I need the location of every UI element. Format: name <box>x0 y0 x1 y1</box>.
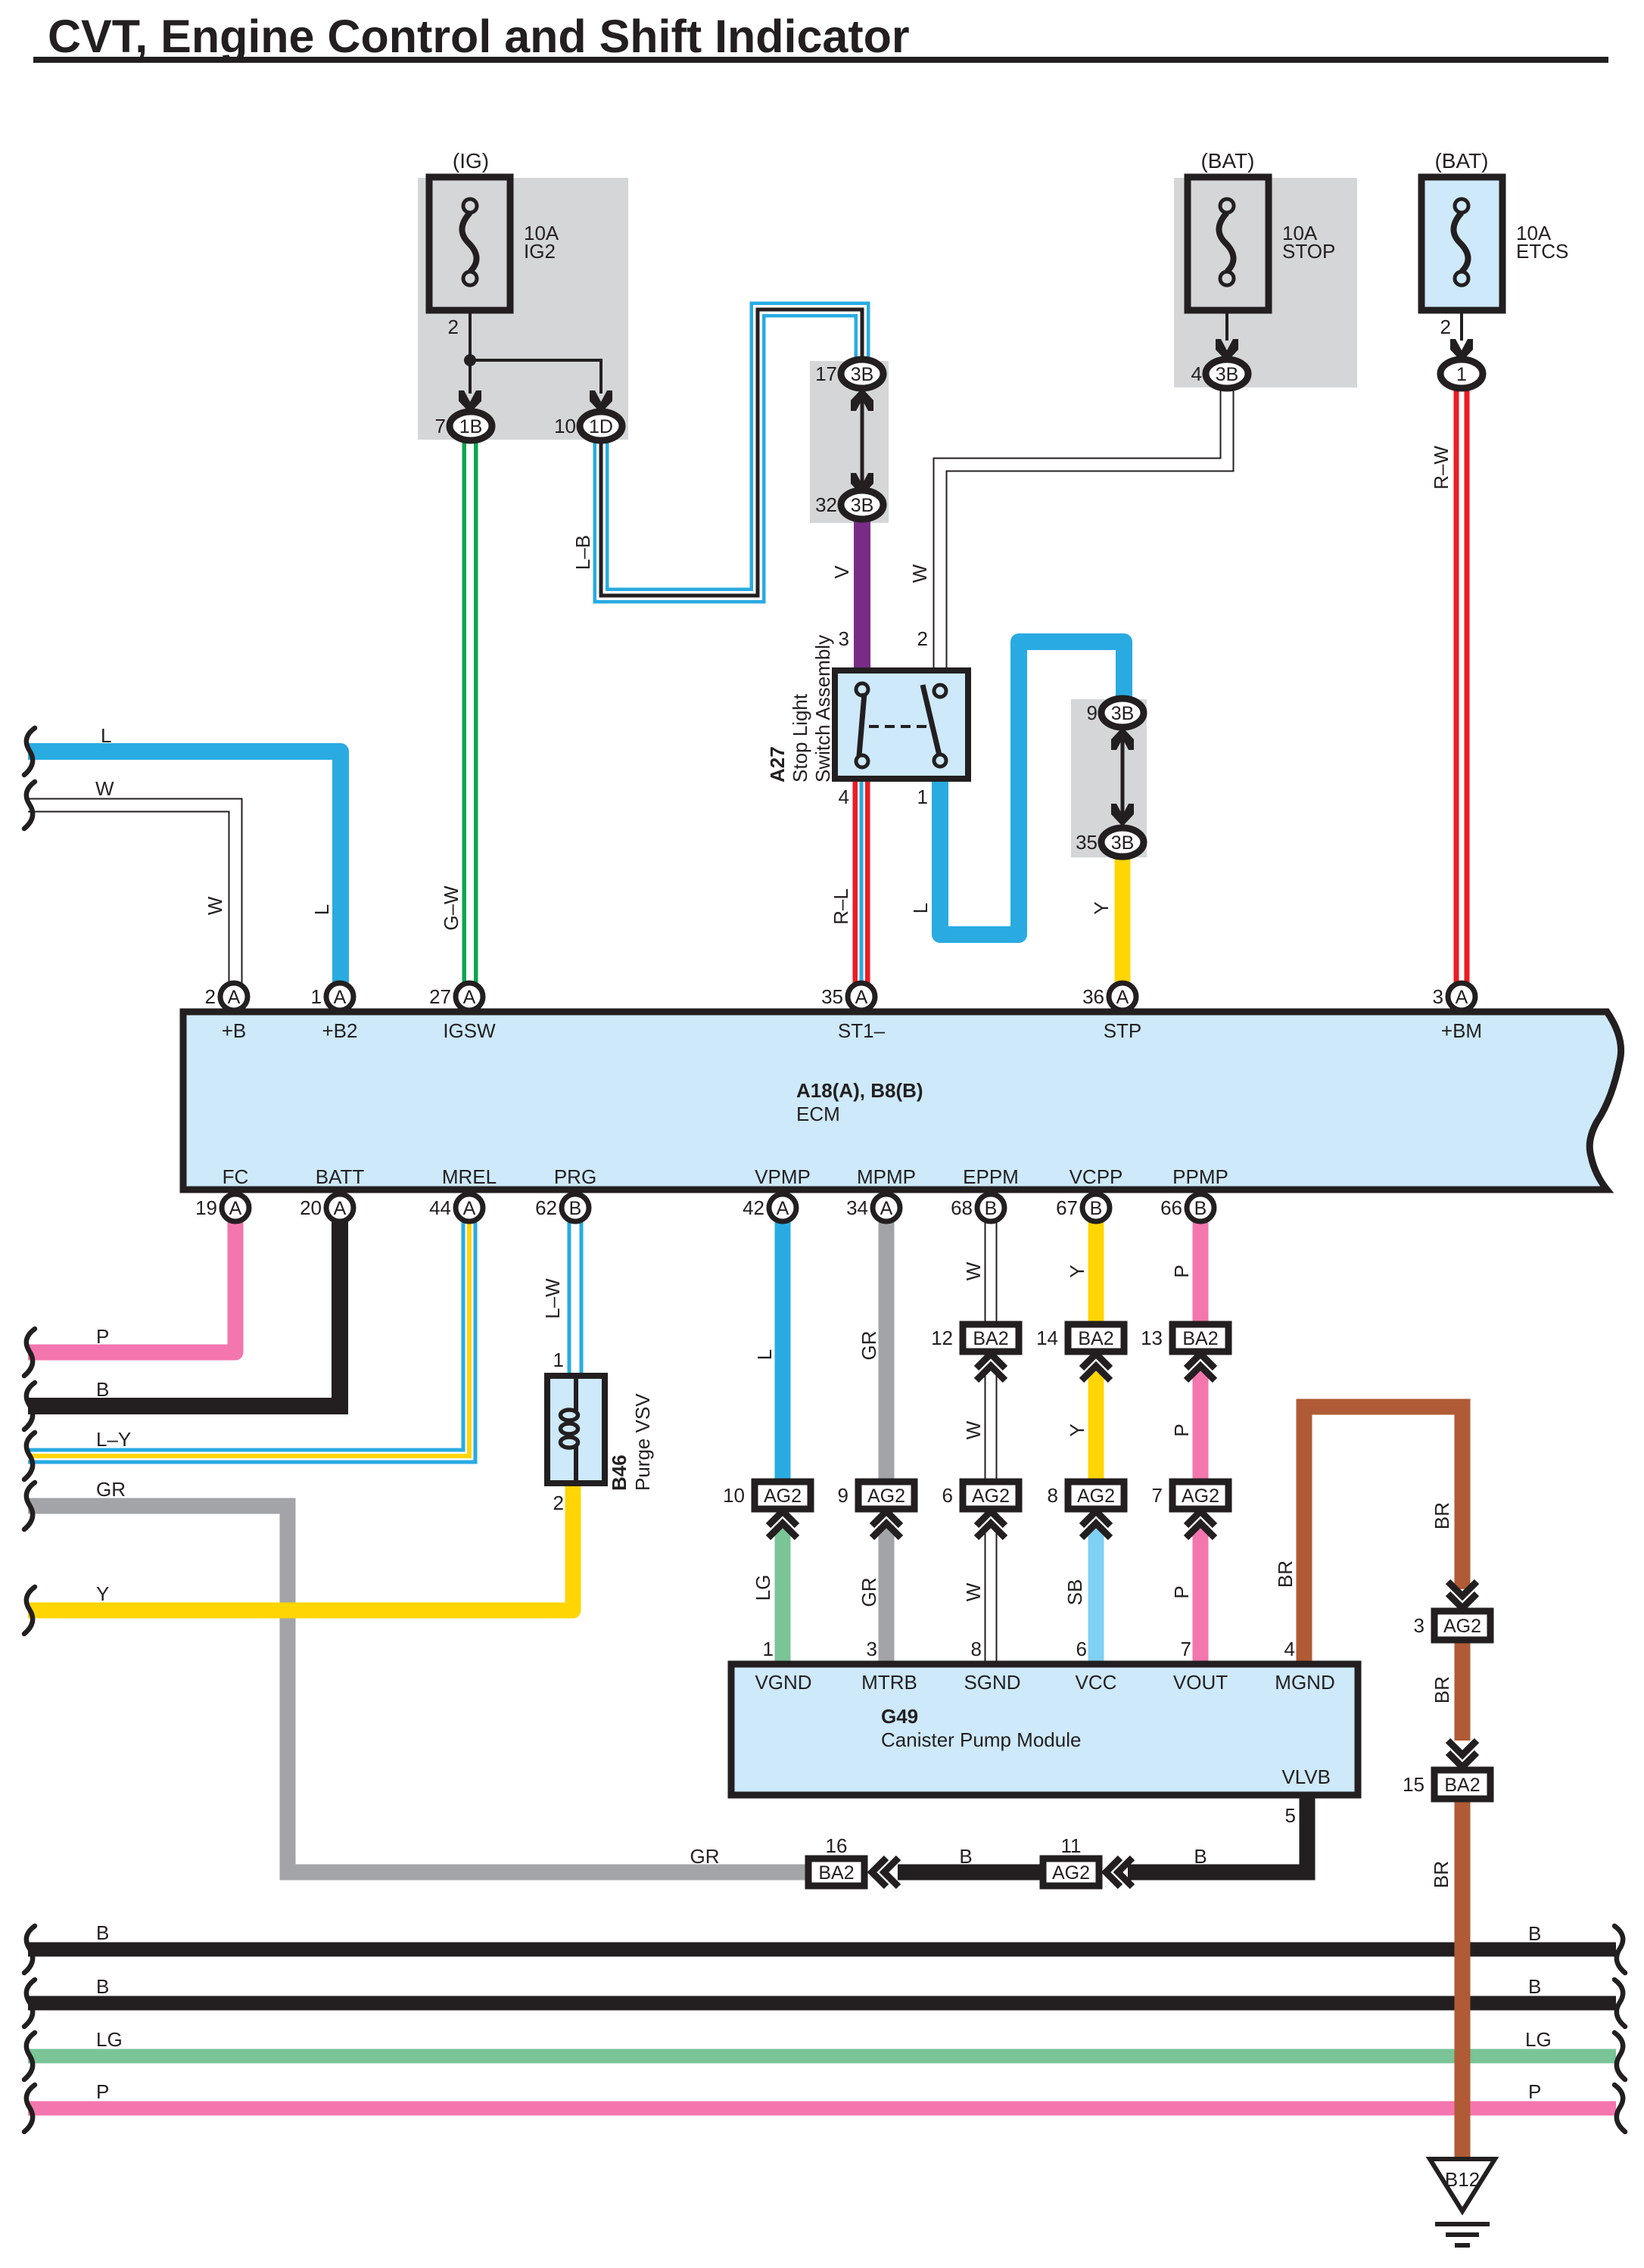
svg-text:+BM: +BM <box>1441 1019 1482 1042</box>
svg-text:AG2: AG2 <box>764 1486 802 1507</box>
svg-text:STOP: STOP <box>1282 240 1335 263</box>
svg-text:A: A <box>334 987 347 1008</box>
connector 10 AG2 <box>723 1482 811 1538</box>
svg-text:Stop Light: Stop Light <box>789 693 811 782</box>
svg-text:BA2: BA2 <box>973 1328 1008 1349</box>
svg-text:2: 2 <box>553 1492 564 1514</box>
svg-text:V: V <box>830 565 853 579</box>
switch pin labels <box>839 627 928 808</box>
ECM pin 19 A <box>195 1194 249 1221</box>
stop light switch assembly A27 box <box>766 635 968 782</box>
svg-text:MGND: MGND <box>1275 1671 1334 1694</box>
wire fuse IG2 pin 2 stem <box>448 310 470 360</box>
ECM pin 62 B <box>535 1194 589 1221</box>
wire W from ECM pin 68 EPPM through 12 BA2 and 6 AG2 to G49 SGND <box>985 1218 998 1665</box>
svg-text:9: 9 <box>838 1484 848 1507</box>
brace left B wire <box>24 1378 109 1430</box>
svg-text:A: A <box>463 987 476 1008</box>
svg-text:AG2: AG2 <box>867 1486 905 1507</box>
ECM pin 27 A <box>429 983 483 1010</box>
svg-text:4: 4 <box>1284 1638 1295 1660</box>
junction node <box>464 354 476 366</box>
svg-text:B: B <box>1194 1198 1207 1219</box>
wire L-W from ECM pin 62 PRG to B46 pin 1 <box>568 1218 584 1379</box>
svg-text:L–B: L–B <box>571 535 594 570</box>
svg-text:W: W <box>95 777 114 800</box>
svg-text:B: B <box>96 1921 109 1944</box>
svg-text:9: 9 <box>1087 702 1098 724</box>
wire P from ECM pin 66 PPMP through 13 BA2 and 7 AG2 to G49 VOUT <box>1193 1218 1209 1665</box>
svg-text:R–W: R–W <box>1430 446 1453 490</box>
svg-text:VCPP: VCPP <box>1070 1165 1123 1188</box>
svg-text:A: A <box>777 1198 789 1219</box>
svg-text:G49: G49 <box>881 1705 918 1728</box>
svg-text:6: 6 <box>1076 1638 1087 1660</box>
svg-text:12: 12 <box>931 1327 953 1349</box>
svg-text:42: 42 <box>743 1196 764 1219</box>
svg-text:Purge VSV: Purge VSV <box>631 1393 654 1491</box>
svg-text:BATT: BATT <box>316 1165 365 1188</box>
svg-text:L: L <box>753 1349 776 1360</box>
arrow into 1B <box>459 390 481 413</box>
connector 9/35 3B gray panel <box>1071 699 1147 857</box>
fuse STOP 10A <box>1188 149 1335 310</box>
svg-text:MPMP: MPMP <box>857 1165 916 1188</box>
fuse STOP gray panel <box>1174 178 1357 387</box>
wire Y from 35 3B to ECM pin 36 STP <box>1115 854 1131 984</box>
svg-text:34: 34 <box>846 1196 868 1219</box>
wire B from 11 AG2 to 16 BA2 <box>898 1865 1043 1881</box>
svg-text:Y: Y <box>1090 901 1113 914</box>
svg-text:68: 68 <box>951 1196 973 1219</box>
bus wire B lower <box>28 1996 1616 2011</box>
svg-text:CVT, Engine Control and Shift: CVT, Engine Control and Shift Indicator <box>48 11 910 62</box>
ECM pin 42 A <box>743 1194 796 1221</box>
svg-text:VCC: VCC <box>1076 1671 1117 1694</box>
ECM pin 67 B <box>1056 1194 1110 1221</box>
svg-text:SB: SB <box>1063 1579 1086 1606</box>
pass-through arrow 9 to 35 <box>1111 727 1134 826</box>
svg-text:IG2: IG2 <box>524 240 556 263</box>
ECM pin 35 A <box>821 983 875 1010</box>
arrow into 4 3B <box>1216 339 1238 362</box>
svg-text:7: 7 <box>435 415 446 437</box>
svg-text:1D: 1D <box>589 416 613 437</box>
svg-text:BR: BR <box>1274 1560 1297 1588</box>
bus P labels and braces <box>24 2080 1625 2132</box>
svg-text:Switch Assembly: Switch Assembly <box>811 635 834 782</box>
svg-text:B: B <box>1528 1975 1541 1998</box>
G49 canister pump module <box>731 1664 1358 1795</box>
svg-text:20: 20 <box>300 1196 322 1219</box>
svg-text:GR: GR <box>96 1478 126 1501</box>
wire fuse STOP stem <box>1225 310 1228 341</box>
svg-text:BR: BR <box>1431 1676 1453 1703</box>
svg-text:ETCS: ETCS <box>1516 240 1568 263</box>
fuse IG2 gray panel <box>418 178 628 440</box>
svg-text:AG2: AG2 <box>1443 1616 1481 1637</box>
svg-text:Y: Y <box>1066 1423 1088 1436</box>
ECM pin 34 A <box>846 1194 900 1221</box>
svg-text:PPMP: PPMP <box>1172 1165 1228 1188</box>
svg-text:R–L: R–L <box>830 888 852 925</box>
svg-text:B46: B46 <box>608 1454 631 1491</box>
svg-text:3: 3 <box>867 1638 877 1660</box>
svg-text:15: 15 <box>1403 1773 1424 1796</box>
svg-text:3B: 3B <box>851 364 874 385</box>
svg-text:P: P <box>1170 1265 1193 1277</box>
wire GR from ECM pin 34 MPMP through 9 AG2 to G49 MTRB <box>879 1218 895 1665</box>
switch terminals <box>856 683 946 767</box>
svg-text:PRG: PRG <box>554 1165 596 1188</box>
svg-text:35: 35 <box>1076 831 1098 854</box>
svg-text:1: 1 <box>1456 364 1467 385</box>
wire W from 4 3B to stop light switch pin 2 <box>940 386 1227 674</box>
svg-text:P: P <box>1528 2080 1541 2103</box>
svg-text:L: L <box>310 904 333 915</box>
svg-text:GR: GR <box>690 1845 720 1868</box>
svg-text:ST1–: ST1– <box>838 1019 886 1042</box>
svg-text:MTRB: MTRB <box>861 1671 917 1694</box>
ECM top pin labels <box>222 1019 1482 1042</box>
junction box panel 17/32 3B <box>810 361 889 523</box>
svg-text:+B2: +B2 <box>322 1019 358 1042</box>
svg-text:VPMP: VPMP <box>755 1165 811 1188</box>
svg-text:A: A <box>1456 987 1468 1008</box>
bus wire LG <box>28 2049 1616 2064</box>
svg-text:1: 1 <box>311 985 322 1008</box>
wire L from stop light switch pin 1 to 9 3B <box>940 642 1124 935</box>
svg-text:VLVB: VLVB <box>1281 1766 1331 1788</box>
svg-text:L–Y: L–Y <box>96 1428 131 1451</box>
svg-text:LG: LG <box>96 2028 123 2051</box>
connector 4 3B <box>1191 359 1248 388</box>
svg-text:B12: B12 <box>1445 2168 1480 2191</box>
svg-text:2: 2 <box>205 985 216 1008</box>
svg-text:B: B <box>1194 1845 1207 1868</box>
svg-text:3: 3 <box>1414 1614 1424 1637</box>
svg-text:AG2: AG2 <box>1077 1486 1115 1507</box>
connector 9 3B <box>1087 698 1144 727</box>
ECM pin 66 B <box>1160 1194 1214 1221</box>
svg-text:+B: +B <box>222 1019 247 1042</box>
brace left L wire <box>24 728 35 775</box>
svg-text:A: A <box>1116 987 1129 1008</box>
svg-text:AG2: AG2 <box>1182 1486 1219 1507</box>
svg-text:1B: 1B <box>459 416 483 437</box>
svg-text:16: 16 <box>826 1834 848 1857</box>
svg-text:2: 2 <box>1440 316 1451 338</box>
svg-text:3: 3 <box>839 627 849 650</box>
svg-text:7: 7 <box>1152 1484 1163 1507</box>
wire BR from 3 AG2 to 15 BA2 <box>1455 1641 1471 1741</box>
svg-text:P: P <box>96 2080 109 2103</box>
wire LG from 10 AG2 to G49 VGND <box>775 1526 791 1665</box>
wire W into ECM pin 2 +B <box>28 805 235 984</box>
svg-text:AG2: AG2 <box>1052 1862 1090 1884</box>
svg-text:FC: FC <box>223 1165 249 1188</box>
svg-text:A: A <box>463 1198 476 1219</box>
connector 16 BA2 <box>808 1834 898 1887</box>
connector 11 AG2 <box>1043 1834 1132 1887</box>
svg-text:2: 2 <box>917 627 928 650</box>
connector 1D pin 10 <box>554 412 622 440</box>
ECM pin 20 A <box>300 1194 353 1221</box>
wire GR from left to 16 BA2 <box>28 1506 836 1872</box>
svg-text:VOUT: VOUT <box>1173 1671 1228 1694</box>
wire L-B from 1D to 17 3B <box>601 310 862 596</box>
svg-text:B: B <box>96 1378 109 1401</box>
ECM box A18(A) B8(B) <box>183 1012 1621 1190</box>
wire P from ECM pin 19 FC <box>28 1218 235 1352</box>
svg-text:GR: GR <box>858 1331 880 1361</box>
wire B from G49 VLVB pin 5 to 11 AG2 <box>1128 1795 1307 1872</box>
svg-text:B: B <box>985 1198 998 1219</box>
svg-text:A: A <box>228 987 241 1008</box>
svg-text:10: 10 <box>554 415 576 437</box>
arrow into connector 1 <box>1450 339 1473 362</box>
wire Y from ECM pin 67 VCPP through 14 BA2 to 8 AG2 <box>1088 1218 1104 1483</box>
svg-text:W: W <box>204 896 226 915</box>
svg-text:EPPM: EPPM <box>963 1165 1019 1188</box>
svg-text:L–W: L–W <box>541 1278 564 1319</box>
svg-text:66: 66 <box>1160 1196 1182 1219</box>
brace left P wire <box>24 1325 109 1376</box>
svg-text:LG: LG <box>1525 2028 1552 2051</box>
connector 17 3B <box>815 359 883 388</box>
svg-text:A27: A27 <box>766 746 789 782</box>
bus B upper labels and braces <box>24 1921 1625 1973</box>
connector 7 AG2 <box>1152 1482 1228 1538</box>
svg-text:L: L <box>909 903 932 913</box>
B46 purge VSV <box>547 1349 654 1514</box>
connector 15 BA2 <box>1403 1741 1490 1799</box>
svg-text:W: W <box>908 564 931 583</box>
svg-text:19: 19 <box>195 1196 217 1219</box>
svg-text:3B: 3B <box>1111 832 1135 854</box>
svg-text:BA2: BA2 <box>818 1862 854 1884</box>
connector 8 AG2 <box>1048 1482 1124 1538</box>
wire BR from 15 BA2 to ground B12 <box>1455 1799 1471 2163</box>
svg-text:MREL: MREL <box>442 1165 497 1188</box>
svg-text:36: 36 <box>1082 985 1104 1008</box>
arrow into 1D <box>590 390 612 413</box>
svg-text:B: B <box>1528 1922 1541 1945</box>
connector 6 AG2 <box>942 1482 1019 1538</box>
svg-text:4: 4 <box>1191 362 1202 385</box>
svg-text:G–W: G–W <box>440 885 462 931</box>
switch mechanical link dashed <box>869 725 931 728</box>
switch lever right <box>923 685 939 755</box>
svg-text:BA2: BA2 <box>1182 1328 1218 1349</box>
svg-text:B: B <box>569 1198 582 1219</box>
svg-text:B: B <box>1090 1198 1103 1219</box>
svg-text:6: 6 <box>942 1484 953 1507</box>
wire L into ECM pin 1 +B2 <box>28 751 341 984</box>
svg-text:BA2: BA2 <box>1078 1328 1113 1349</box>
svg-text:10: 10 <box>723 1484 745 1507</box>
svg-text:GR: GR <box>858 1578 880 1607</box>
svg-text:SGND: SGND <box>964 1671 1020 1694</box>
ECM pin 1 A <box>311 983 353 1010</box>
wire B from ECM pin 20 BATT <box>28 1218 340 1406</box>
wire Y from left to B46 pin 2 <box>28 1481 573 1610</box>
pass-through arrow 17 to 32 <box>851 388 873 496</box>
svg-text:L: L <box>101 724 111 747</box>
connector 1 (ETCS) <box>1440 359 1483 388</box>
wire branch to 1B and 1D <box>470 360 601 394</box>
svg-text:32: 32 <box>815 493 837 516</box>
connector 35 3B <box>1076 828 1144 857</box>
svg-text:4: 4 <box>839 786 849 808</box>
brace left Y wire <box>24 1582 109 1634</box>
svg-text:3: 3 <box>1433 985 1443 1008</box>
bus wire P <box>28 2102 1616 2116</box>
svg-text:17: 17 <box>815 362 837 385</box>
switch lever left <box>859 693 864 756</box>
svg-text:1: 1 <box>553 1349 564 1371</box>
ECM pin 3 A <box>1433 983 1475 1010</box>
bus LG labels and braces <box>24 2028 1625 2080</box>
ECM pin 44 A <box>429 1194 483 1221</box>
svg-text:BR: BR <box>1430 1861 1453 1888</box>
G49 top pin labels <box>755 1671 1334 1694</box>
connector 9 AG2 <box>838 1482 914 1538</box>
wire SB from 8 AG2 to G49 VCC <box>1088 1526 1104 1665</box>
svg-text:8: 8 <box>1048 1484 1058 1507</box>
svg-text:44: 44 <box>429 1196 451 1219</box>
svg-text:11: 11 <box>1061 1834 1082 1857</box>
svg-text:(BAT): (BAT) <box>1434 149 1488 173</box>
wire BR from G49 MGND pin 4 to 3 AG2 <box>1304 1407 1462 1665</box>
connector 1B pin 7 <box>435 412 492 440</box>
svg-text:B: B <box>96 1975 109 1998</box>
G49 pin numbers <box>763 1638 1295 1660</box>
svg-text:STP: STP <box>1104 1019 1142 1042</box>
svg-text:W: W <box>962 1582 985 1601</box>
svg-text:8: 8 <box>971 1638 982 1660</box>
title <box>33 11 1608 63</box>
svg-text:14: 14 <box>1036 1327 1058 1349</box>
connector 3 AG2 <box>1414 1582 1490 1640</box>
fuse ETCS 10A <box>1421 149 1568 310</box>
ECM pin 2 A <box>205 983 248 1010</box>
wire V from 32 3B to stop light switch pin 3 <box>854 517 870 674</box>
svg-text:3B: 3B <box>1216 364 1239 385</box>
wire L from ECM pin 42 VPMP to 10 AG2 <box>775 1218 791 1483</box>
wire R-L from stop light switch pin 4 to ECM pin 35 ST1- <box>853 777 870 984</box>
svg-text:(IG): (IG) <box>453 149 489 173</box>
ECM pin 36 A <box>1082 983 1136 1010</box>
svg-text:A: A <box>855 987 868 1008</box>
svg-text:B: B <box>959 1845 972 1868</box>
svg-text:IGSW: IGSW <box>443 1019 496 1042</box>
svg-text:W: W <box>962 1262 985 1280</box>
brace left GR wire <box>24 1478 126 1529</box>
svg-text:W: W <box>962 1420 985 1439</box>
connector 13 BA2 <box>1141 1324 1228 1380</box>
svg-text:P: P <box>1170 1423 1193 1436</box>
svg-text:ECM: ECM <box>796 1103 840 1125</box>
svg-text:Y: Y <box>96 1582 109 1605</box>
connector 12 BA2 <box>931 1324 1019 1380</box>
svg-text:P: P <box>1170 1585 1193 1598</box>
bus wire B upper <box>28 1943 1616 1957</box>
svg-text:7: 7 <box>1181 1638 1191 1660</box>
wire R-W from ETCS fuse to ECM pin 3 +BM <box>1454 386 1470 984</box>
brace left W wire <box>24 782 35 829</box>
connector 14 BA2 <box>1036 1324 1124 1380</box>
svg-text:BR: BR <box>1431 1502 1453 1529</box>
connector 32 3B <box>815 490 883 519</box>
ECM pin 68 B <box>951 1194 1004 1221</box>
svg-text:Canister Pump Module: Canister Pump Module <box>881 1728 1081 1751</box>
svg-text:1: 1 <box>763 1638 774 1660</box>
svg-text:2: 2 <box>448 316 459 338</box>
svg-text:A: A <box>229 1198 242 1219</box>
svg-text:A18(A), B8(B): A18(A), B8(B) <box>796 1079 923 1102</box>
svg-text:67: 67 <box>1056 1196 1078 1219</box>
svg-text:A: A <box>334 1198 347 1219</box>
bus B lower labels and braces <box>24 1975 1625 2027</box>
svg-text:1: 1 <box>917 786 928 808</box>
svg-text:3B: 3B <box>851 495 874 516</box>
svg-text:A: A <box>880 1198 893 1219</box>
svg-text:62: 62 <box>535 1196 557 1219</box>
svg-text:(BAT): (BAT) <box>1200 149 1254 173</box>
svg-text:13: 13 <box>1141 1327 1163 1349</box>
svg-text:Y: Y <box>1066 1265 1088 1277</box>
wire G-W from 1B to ECM pin 27 IGSW <box>462 439 478 984</box>
ground B12 <box>1430 2159 1495 2245</box>
svg-text:3B: 3B <box>1111 703 1135 724</box>
svg-text:BA2: BA2 <box>1444 1775 1480 1796</box>
svg-text:P: P <box>96 1325 109 1348</box>
fuse IG2 10A <box>429 149 559 310</box>
svg-text:35: 35 <box>821 985 843 1008</box>
wire L-Y from ECM pin 44 MREL <box>28 1218 469 1456</box>
brace left L-Y wire <box>24 1428 131 1479</box>
svg-text:27: 27 <box>429 985 451 1008</box>
svg-text:5: 5 <box>1285 1804 1296 1827</box>
svg-text:LG: LG <box>752 1575 774 1601</box>
svg-text:AG2: AG2 <box>972 1486 1010 1507</box>
svg-text:VGND: VGND <box>755 1671 811 1694</box>
wire fuse ETCS pin 2 stem <box>1440 310 1462 341</box>
ECM bottom pin labels <box>223 1165 1228 1188</box>
